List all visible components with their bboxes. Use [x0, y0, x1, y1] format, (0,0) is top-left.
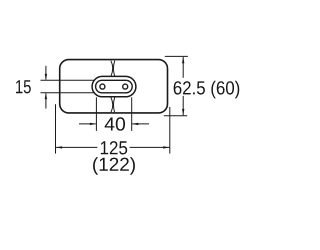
dim 125: extension line right — [169, 107, 171, 154]
dim 40: right outside arrow — [132, 123, 149, 125]
dim 15: lower leader with up arrow — [45, 93, 47, 108]
dim 40: left outside arrow — [79, 123, 96, 125]
dim 15: label — [16, 80, 31, 93]
dim 125: dimension line left segment with left arrow — [56, 146, 98, 148]
dim 122: label — [93, 157, 135, 175]
bolt hole left — [100, 84, 105, 89]
dim 40: label — [105, 117, 125, 130]
anode plate body outline — [60, 60, 168, 113]
dim 40: extension line right — [131, 97, 133, 131]
dim 125: extension line left — [55, 104, 57, 153]
dim 125: dimension line right segment with right arrow — [130, 146, 170, 148]
dim 62.5: extension line bottom — [164, 115, 187, 117]
slot recess (inner stadium) — [96, 80, 133, 93]
dim 62.5: extension line top — [165, 55, 188, 57]
strap break line bottom right — [113, 97, 114, 112]
dim 15: extension line bottom — [41, 92, 95, 94]
mounting boss (outer stadium) — [92, 76, 136, 96]
dim 15: extension line top — [41, 79, 95, 81]
dim 62.5: dimension line lower segment with down arrow — [182, 96, 184, 115]
dim 62.5: label — [174, 81, 240, 99]
strap break line top left — [111, 61, 113, 76]
dim 125: label — [101, 141, 127, 154]
bolt hole right — [123, 84, 128, 89]
dim 40: extension line left — [95, 97, 97, 131]
dim 15: upper leader with down arrow — [45, 66, 47, 80]
dim 62.5: dimension line upper segment with up arrow — [182, 57, 184, 78]
strap break line bottom left — [111, 97, 113, 112]
strap break line top right — [113, 61, 114, 76]
